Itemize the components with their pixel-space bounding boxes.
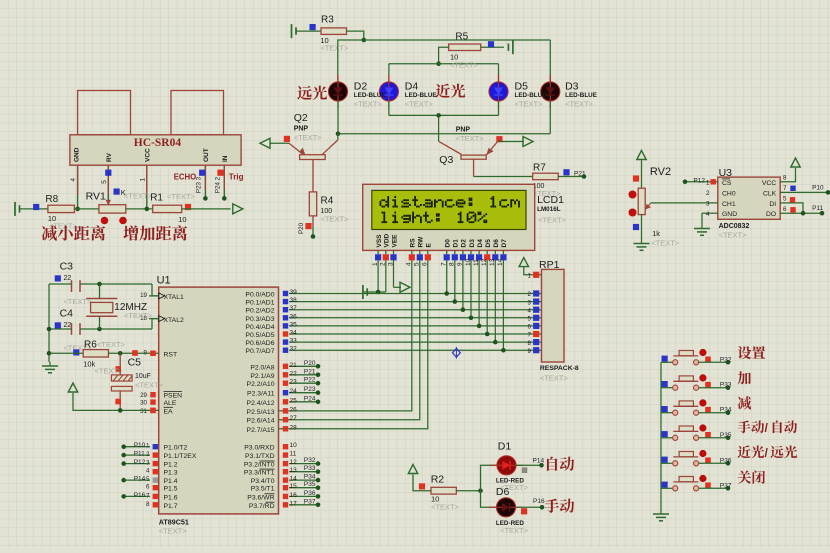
svg-text:P3.3/INT1: P3.3/INT1 — [244, 470, 275, 477]
svg-text:P2.4/A12: P2.4/A12 — [247, 400, 275, 407]
svg-text:<TEXT>: <TEXT> — [515, 100, 544, 109]
svg-text:D0: D0 — [445, 239, 452, 248]
svg-text:RW: RW — [418, 236, 425, 248]
svg-text:P3.5/T1: P3.5/T1 — [251, 486, 275, 493]
svg-text:1: 1 — [528, 273, 532, 280]
svg-text:<TEXT>: <TEXT> — [124, 192, 153, 201]
svg-text:8: 8 — [783, 175, 787, 182]
svg-text:C3: C3 — [60, 261, 74, 273]
svg-text:R1: R1 — [150, 193, 163, 204]
svg-text:P33: P33 — [720, 382, 732, 389]
svg-text:P36: P36 — [304, 490, 316, 497]
svg-text:9: 9 — [528, 348, 532, 355]
svg-text:ALE: ALE — [164, 400, 177, 407]
svg-text:30: 30 — [140, 400, 147, 407]
svg-text:GND: GND — [722, 211, 737, 218]
svg-text:38: 38 — [290, 297, 298, 304]
svg-text:D4: D4 — [477, 239, 484, 248]
svg-text:P22: P22 — [304, 377, 316, 384]
svg-text:14: 14 — [290, 476, 298, 483]
svg-text:P2.2/A10: P2.2/A10 — [247, 381, 275, 388]
svg-text:P0.3/AD3: P0.3/AD3 — [245, 316, 274, 323]
svg-text:P33: P33 — [304, 465, 316, 472]
svg-text:D5: D5 — [515, 81, 529, 93]
svg-text:C5: C5 — [128, 357, 142, 369]
svg-text:R8: R8 — [45, 194, 58, 205]
svg-text:1k: 1k — [652, 229, 660, 238]
svg-text:3: 3 — [528, 299, 532, 306]
svg-text:24: 24 — [290, 388, 298, 395]
svg-text:1: 1 — [139, 178, 146, 182]
svg-text:CS: CS — [722, 180, 732, 187]
svg-text:D4: D4 — [405, 81, 419, 93]
svg-text:PSEN: PSEN — [164, 393, 183, 400]
svg-text:10: 10 — [178, 215, 186, 224]
svg-text:P14: P14 — [533, 458, 545, 465]
svg-text:P34: P34 — [304, 474, 316, 481]
svg-text:ECHO: ECHO — [174, 173, 197, 182]
svg-text:P20: P20 — [298, 222, 305, 234]
svg-text:VCC: VCC — [762, 180, 776, 187]
svg-text:P2.0/A8: P2.0/A8 — [250, 364, 274, 371]
svg-text:P1.0/T2: P1.0/T2 — [164, 445, 188, 452]
svg-text:P0.5/AD5: P0.5/AD5 — [245, 332, 274, 339]
svg-text:6: 6 — [528, 324, 532, 331]
svg-text:D5: D5 — [485, 239, 492, 248]
svg-text:R4: R4 — [321, 196, 334, 207]
svg-text:P23: P23 — [304, 386, 316, 393]
svg-text:D2: D2 — [461, 239, 468, 248]
svg-text:P3.1/TXD: P3.1/TXD — [245, 453, 275, 460]
svg-text:Q3: Q3 — [439, 154, 453, 166]
svg-text:P1.2: P1.2 — [164, 462, 178, 469]
svg-text:3: 3 — [706, 201, 710, 208]
svg-text:2: 2 — [528, 291, 532, 298]
svg-text:ADC0832: ADC0832 — [719, 223, 750, 230]
svg-text:P1.7: P1.7 — [164, 503, 178, 510]
svg-text:RST: RST — [164, 351, 178, 358]
svg-text:P32: P32 — [720, 356, 732, 363]
svg-text:P10: P10 — [812, 185, 824, 192]
svg-text:31: 31 — [140, 408, 147, 415]
svg-text:P1.5: P1.5 — [164, 486, 178, 493]
svg-text:D7: D7 — [501, 239, 508, 248]
svg-text:P20: P20 — [304, 360, 316, 367]
svg-text:4: 4 — [146, 468, 150, 475]
svg-text:PNP: PNP — [294, 126, 309, 133]
svg-text:HC-SR04: HC-SR04 — [134, 137, 182, 149]
svg-text:1: 1 — [706, 180, 710, 187]
svg-text:17: 17 — [290, 500, 298, 507]
svg-text:6: 6 — [783, 206, 787, 213]
svg-text:R6: R6 — [84, 340, 97, 351]
svg-text:P0.0/AD0: P0.0/AD0 — [245, 292, 274, 299]
svg-text:RV: RV — [106, 152, 113, 162]
svg-text:P12: P12 — [693, 178, 705, 185]
svg-text:EA: EA — [164, 408, 174, 415]
svg-text:P3.6/WR: P3.6/WR — [247, 494, 274, 501]
svg-text:<TEXT>: <TEXT> — [565, 100, 594, 109]
svg-text:<TEXT>: <TEXT> — [450, 61, 479, 70]
svg-text:<TEXT>: <TEXT> — [320, 44, 349, 53]
svg-text:15: 15 — [290, 483, 298, 490]
svg-text:P2.3/A11: P2.3/A11 — [247, 391, 275, 398]
svg-text:AT89C51: AT89C51 — [159, 518, 189, 527]
svg-text:6: 6 — [146, 484, 150, 491]
svg-text:P11: P11 — [134, 451, 145, 458]
svg-text:P1.1/T2EX: P1.1/T2EX — [164, 453, 197, 460]
svg-text:P3.2/INT0: P3.2/INT0 — [244, 462, 275, 469]
svg-text:P35: P35 — [304, 481, 316, 488]
svg-text:8: 8 — [528, 340, 532, 347]
svg-text:IN: IN — [222, 155, 229, 162]
svg-text:11: 11 — [290, 451, 297, 458]
svg-text:5: 5 — [101, 180, 108, 184]
svg-text:R7: R7 — [533, 163, 546, 174]
svg-text:<TEXT>: <TEXT> — [167, 192, 196, 201]
svg-text:<TEXT>: <TEXT> — [159, 527, 188, 536]
svg-text:7: 7 — [528, 332, 532, 339]
svg-text:D1: D1 — [453, 239, 460, 248]
svg-text:D3: D3 — [565, 81, 579, 93]
svg-text:R2: R2 — [431, 474, 445, 486]
svg-text:23: 23 — [290, 379, 298, 386]
svg-text:5: 5 — [528, 316, 532, 323]
svg-text:P16: P16 — [134, 492, 146, 499]
svg-text:<TEXT>: <TEXT> — [97, 340, 126, 349]
svg-text:PNP: PNP — [456, 127, 471, 134]
svg-text:26: 26 — [290, 406, 298, 413]
svg-text:P35: P35 — [720, 432, 732, 439]
svg-text:<TEXT>: <TEXT> — [124, 311, 153, 320]
svg-text:LED-BLUE: LED-BLUE — [354, 92, 386, 99]
svg-text:RV1: RV1 — [86, 191, 106, 203]
svg-text:37: 37 — [290, 305, 298, 312]
svg-text:32: 32 — [290, 346, 298, 353]
svg-text:P1.3: P1.3 — [164, 470, 178, 477]
svg-text:36: 36 — [290, 313, 298, 320]
svg-text:R5: R5 — [455, 32, 468, 43]
svg-text:29: 29 — [140, 392, 147, 399]
svg-text:C4: C4 — [60, 308, 74, 320]
svg-text:OUT: OUT — [203, 148, 210, 162]
svg-text:P23 3: P23 3 — [196, 176, 203, 193]
svg-text:LED-BLUE: LED-BLUE — [515, 92, 547, 99]
svg-text:GND: GND — [74, 147, 81, 162]
svg-text:16: 16 — [290, 492, 298, 499]
svg-text:P3.0/RXD: P3.0/RXD — [244, 445, 274, 452]
svg-text:P0.6/AD6: P0.6/AD6 — [245, 340, 274, 347]
svg-text:28: 28 — [290, 424, 298, 431]
svg-text:P21: P21 — [304, 368, 316, 375]
svg-text:VCC: VCC — [144, 148, 151, 162]
svg-text:P37: P37 — [304, 498, 316, 505]
svg-text:CH0: CH0 — [722, 190, 736, 197]
svg-text:P3.7/RD: P3.7/RD — [249, 503, 275, 510]
svg-text:P34: P34 — [720, 407, 732, 414]
svg-text:<TEXT>: <TEXT> — [294, 133, 323, 142]
svg-text:VEE: VEE — [391, 234, 398, 248]
svg-text:LM016L: LM016L — [537, 206, 561, 213]
svg-text:P2.7/A15: P2.7/A15 — [247, 427, 275, 434]
svg-text:DO: DO — [766, 211, 776, 218]
svg-text:XTAL2: XTAL2 — [164, 317, 184, 324]
svg-text:<TEXT>: <TEXT> — [405, 100, 434, 109]
svg-text:39: 39 — [290, 289, 298, 296]
svg-text:P0.1/AD1: P0.1/AD1 — [245, 300, 274, 307]
svg-text:P3.4/T0: P3.4/T0 — [251, 478, 275, 485]
svg-text:RV2: RV2 — [650, 166, 671, 178]
svg-text:<TEXT>: <TEXT> — [135, 381, 164, 390]
svg-text:CH1: CH1 — [722, 201, 736, 208]
svg-text:P0.4/AD4: P0.4/AD4 — [245, 324, 274, 331]
svg-text:<TEXT>: <TEXT> — [456, 134, 485, 143]
svg-text:P37: P37 — [720, 482, 732, 489]
svg-text:P12: P12 — [134, 459, 146, 466]
svg-text:8: 8 — [146, 501, 150, 508]
svg-text:DI: DI — [769, 201, 776, 208]
svg-text:4: 4 — [70, 178, 77, 182]
svg-text:D6: D6 — [493, 239, 500, 248]
svg-text:Q2: Q2 — [294, 112, 308, 124]
svg-text:2: 2 — [706, 190, 710, 197]
svg-text:D2: D2 — [354, 81, 368, 93]
svg-text:LED-BLUE: LED-BLUE — [565, 92, 597, 99]
svg-text:P2.5/A13: P2.5/A13 — [247, 409, 275, 416]
svg-text:U1: U1 — [157, 275, 171, 287]
svg-text:P24: P24 — [304, 395, 316, 402]
svg-text:19: 19 — [140, 292, 147, 299]
svg-text:10uF: 10uF — [135, 373, 151, 380]
svg-text:<TEXT>: <TEXT> — [538, 216, 567, 225]
svg-text:P2.1/A9: P2.1/A9 — [250, 373, 274, 380]
svg-text:<TEXT>: <TEXT> — [431, 503, 460, 512]
svg-text:5: 5 — [783, 196, 787, 203]
svg-text:4: 4 — [528, 307, 532, 314]
svg-text:22: 22 — [290, 370, 298, 377]
svg-text:25: 25 — [290, 397, 298, 404]
svg-text:<TEXT>: <TEXT> — [540, 374, 569, 383]
svg-text:<TEXT>: <TEXT> — [651, 239, 680, 248]
svg-text:P1.4: P1.4 — [164, 478, 178, 485]
svg-text:<TEXT>: <TEXT> — [321, 215, 350, 224]
svg-text:E: E — [426, 243, 433, 248]
svg-text:7: 7 — [783, 185, 787, 192]
svg-text:13: 13 — [290, 467, 298, 474]
svg-text:D3: D3 — [469, 239, 476, 248]
svg-text:P14: P14 — [134, 476, 146, 483]
svg-text:XTAL1: XTAL1 — [164, 294, 184, 301]
svg-text:CLK: CLK — [763, 190, 777, 197]
svg-text:<TEXT>: <TEXT> — [719, 231, 748, 240]
svg-text:RS: RS — [410, 238, 417, 248]
svg-text:P24 2: P24 2 — [215, 176, 222, 193]
svg-text:P16: P16 — [533, 498, 545, 505]
svg-text:4: 4 — [706, 211, 710, 218]
svg-text:LED-BLUE: LED-BLUE — [405, 92, 437, 99]
svg-text:P11: P11 — [812, 205, 823, 212]
svg-text:VDD: VDD — [384, 233, 391, 247]
svg-text:P0.2/AD2: P0.2/AD2 — [245, 308, 274, 315]
svg-text:<TEXT>: <TEXT> — [95, 367, 124, 376]
svg-text:22: 22 — [64, 322, 72, 329]
svg-text:27: 27 — [290, 415, 298, 422]
svg-text:RESPACK-8: RESPACK-8 — [540, 365, 579, 372]
svg-text:22: 22 — [64, 275, 72, 282]
svg-text:<TEXT>: <TEXT> — [354, 100, 383, 109]
svg-text:P1.6: P1.6 — [164, 494, 178, 501]
svg-text:<TEXT>: <TEXT> — [500, 526, 529, 535]
svg-text:35: 35 — [290, 321, 298, 328]
svg-text:VSS: VSS — [376, 234, 383, 248]
svg-text:P32: P32 — [304, 457, 316, 464]
svg-text:P0.7/AD7: P0.7/AD7 — [245, 348, 274, 355]
svg-text:R3: R3 — [321, 15, 334, 26]
svg-text:10: 10 — [290, 442, 298, 449]
svg-text:P36: P36 — [720, 457, 732, 464]
svg-text:P10: P10 — [134, 442, 146, 449]
svg-text:Trig: Trig — [229, 173, 244, 182]
svg-text:21: 21 — [290, 362, 298, 369]
svg-text:D6: D6 — [496, 486, 510, 498]
svg-text:P2.6/A14: P2.6/A14 — [247, 418, 275, 425]
svg-text:34: 34 — [290, 330, 298, 337]
svg-text:12: 12 — [290, 459, 298, 466]
svg-text:LCD1: LCD1 — [537, 194, 564, 206]
svg-text:33: 33 — [290, 338, 298, 345]
svg-text:D1: D1 — [498, 441, 512, 453]
